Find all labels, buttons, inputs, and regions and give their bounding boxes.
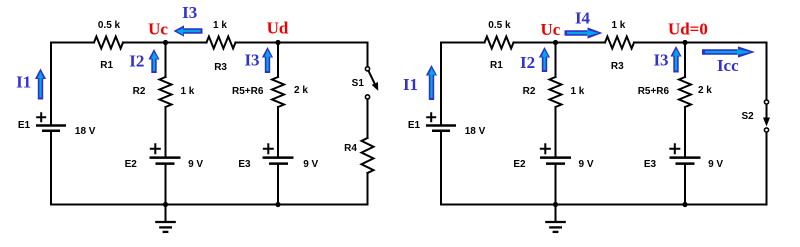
svg-text:Ud: Ud: [267, 19, 289, 38]
svg-text:R3: R3: [214, 62, 227, 73]
svg-text:1 k: 1 k: [180, 86, 194, 97]
svg-text:9 V: 9 V: [188, 159, 203, 170]
svg-text:18 V: 18 V: [75, 126, 96, 137]
svg-text:E3: E3: [644, 159, 657, 170]
svg-text:0.5 k: 0.5 k: [488, 20, 511, 31]
svg-text:I2: I2: [129, 52, 144, 71]
svg-text:E2: E2: [513, 159, 526, 170]
svg-text:1 k: 1 k: [213, 20, 227, 31]
svg-text:I1: I1: [16, 73, 31, 92]
svg-text:1 k: 1 k: [570, 86, 584, 97]
svg-text:Ud=0: Ud=0: [668, 20, 708, 39]
svg-text:R3: R3: [611, 61, 624, 72]
svg-text:2 k: 2 k: [294, 85, 308, 96]
svg-text:I3: I3: [244, 51, 259, 70]
svg-text:Icc: Icc: [717, 56, 739, 75]
svg-text:Uc: Uc: [148, 20, 168, 39]
svg-text:R5+R6: R5+R6: [638, 86, 670, 97]
svg-text:9 V: 9 V: [578, 159, 593, 170]
svg-text:E3: E3: [238, 159, 251, 170]
svg-text:R4: R4: [344, 143, 357, 154]
svg-text:R2: R2: [523, 86, 536, 97]
svg-text:R2: R2: [133, 86, 146, 97]
svg-text:E1: E1: [408, 120, 421, 131]
svg-text:E1: E1: [18, 120, 31, 131]
svg-text:R1: R1: [100, 60, 113, 71]
svg-text:9 V: 9 V: [303, 159, 318, 170]
svg-text:I3: I3: [182, 3, 197, 22]
svg-text:S1: S1: [352, 78, 365, 89]
svg-text:1 k: 1 k: [611, 20, 625, 31]
svg-text:2 k: 2 k: [698, 85, 712, 96]
svg-text:I2: I2: [520, 53, 535, 72]
svg-text:R5+R6: R5+R6: [232, 86, 264, 97]
svg-text:I3: I3: [653, 51, 668, 70]
svg-text:18 V: 18 V: [465, 126, 486, 137]
svg-text:I1: I1: [403, 75, 418, 94]
svg-text:R1: R1: [490, 60, 503, 71]
svg-text:S2: S2: [741, 111, 754, 122]
svg-text:E2: E2: [125, 159, 138, 170]
svg-text:I4: I4: [575, 9, 591, 28]
svg-text:9 V: 9 V: [708, 159, 723, 170]
svg-text:Uc: Uc: [540, 20, 560, 39]
svg-text:0.5 k: 0.5 k: [98, 20, 121, 31]
